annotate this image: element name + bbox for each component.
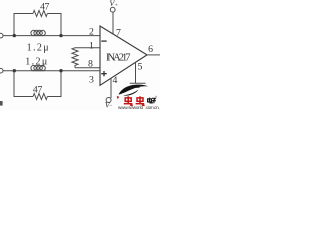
terminal V- — [106, 98, 111, 103]
wire V+ to pin7 — [112, 12, 114, 34]
svg-text:7: 7 — [116, 27, 121, 38]
svg-text:8: 8 — [88, 58, 93, 69]
watermark bug swoosh — [119, 85, 149, 95]
node top-left junction — [13, 34, 16, 37]
wire top rail — [3, 35, 101, 37]
svg-text:1.2μ: 1.2μ — [25, 56, 47, 67]
svg-text:www.seworld: www.seworld — [118, 105, 143, 110]
svg-text:3: 3 — [89, 74, 94, 85]
watermark zi (black) — [151, 98, 156, 103]
wire pin4 down — [110, 78, 112, 98]
terminal V+ — [110, 7, 115, 12]
watermark chong 1 (red) — [124, 96, 133, 105]
svg-text:INA217: INA217 — [106, 52, 131, 63]
svg-text:7: 7 — [45, 1, 50, 12]
wire pin5 down — [135, 62, 137, 83]
svg-text:1.2μ: 1.2μ — [27, 42, 49, 53]
watermark red tick — [117, 96, 120, 100]
inductor L2 1.2u (bottom) — [31, 65, 45, 70]
ground — [130, 83, 146, 87]
watermark chong 2 (red) — [136, 96, 145, 105]
resistor RG (gain, vertical) — [72, 48, 78, 68]
wire pin8 lead — [75, 67, 101, 69]
watermark dian (black) — [148, 98, 153, 103]
wire bottom rail — [3, 70, 101, 72]
node bottom-left junction — [13, 69, 16, 72]
op-amp minus sign — [101, 40, 106, 42]
node bottom-right junction — [59, 69, 62, 72]
terminal input top — [0, 33, 3, 38]
wire pin1 lead — [75, 47, 101, 49]
inductor L1 1.2u (top) — [31, 30, 45, 35]
svg-text:6: 6 — [148, 44, 153, 55]
terminal input bottom — [0, 68, 3, 73]
watermark tiny tm — [155, 96, 157, 98]
svg-text:.com.cn.: .com.cn. — [145, 105, 160, 110]
svg-text:1: 1 — [89, 40, 94, 51]
wire — [47, 71, 61, 97]
svg-text:−: − — [109, 103, 113, 109]
resistor R1 47 (top feedback loop) — [33, 11, 47, 17]
wire output pin6 — [147, 54, 160, 56]
op-amp U1 INA217 triangle — [100, 26, 147, 85]
svg-text:2: 2 — [89, 27, 94, 38]
wire bottom loop — [14, 71, 33, 97]
svg-text:5: 5 — [138, 62, 143, 73]
junction dots — [13, 34, 63, 73]
op-amp plus sign — [101, 71, 106, 76]
node top-right junction — [59, 34, 62, 37]
svg-text:7: 7 — [38, 84, 43, 95]
watermark cut character left edge — [0, 101, 3, 106]
wire top loop — [14, 14, 33, 36]
wire — [47, 14, 61, 36]
resistor R2 47 (bottom loop) — [33, 94, 47, 100]
svg-text:4: 4 — [113, 75, 118, 86]
svg-text:+: + — [115, 3, 118, 9]
